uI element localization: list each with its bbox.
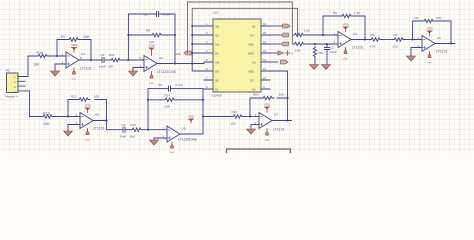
node U2 output feedback join <box>450 43 452 45</box>
svg-text:GND: GND <box>175 52 181 56</box>
svg-text:VSS: VSS <box>85 140 90 142</box>
resistor R22 1.1K (rail B) <box>293 42 305 52</box>
op-amp U9 LT1115CN8 <box>163 126 197 142</box>
VDD power port stage2 <box>149 44 156 56</box>
node bus pin3 <box>191 43 193 45</box>
svg-text:U10: U10 <box>213 11 219 15</box>
svg-text:VDD: VDD <box>188 115 195 119</box>
resistor R13 10K (stage7 input) <box>231 110 245 126</box>
VDD power port stage6 <box>188 115 195 124</box>
svg-text:VSS: VSS <box>170 152 175 153</box>
ground at U9 <box>150 140 159 145</box>
node rail tap left <box>128 34 130 36</box>
power port below U3 <box>343 48 348 61</box>
svg-text:R5: R5 <box>333 11 337 15</box>
node hang R tap <box>314 43 316 45</box>
resistor R16 75K (to ground) <box>313 47 323 65</box>
wire feedback loop stage1 <box>57 40 91 61</box>
node stage5 feedback tap <box>67 116 69 118</box>
svg-text:VSS: VSS <box>265 140 270 142</box>
ground at U4 <box>51 71 60 76</box>
wire R13 to U7 <box>244 116 259 118</box>
wire U5 output to DG408 pin S2 <box>157 63 204 64</box>
VDD power port stage7 <box>264 103 271 113</box>
wire C4 to right riser <box>159 14 176 64</box>
node stage6 rail left <box>147 99 149 101</box>
wire U4 output <box>79 59 101 61</box>
svg-text:1.1K: 1.1K <box>304 29 310 33</box>
capacitor C4 4.7uF (stage2 feedback) <box>144 11 171 16</box>
svg-text:D2: D2 <box>250 79 254 83</box>
svg-text:15: 15 <box>263 31 267 35</box>
svg-text:GND: GND <box>248 52 254 56</box>
svg-text:VDD: VDD <box>427 27 434 31</box>
svg-text:10K: 10K <box>279 93 284 97</box>
VDD power port stage3 <box>343 23 350 32</box>
multiplexer U10 DG408 body <box>212 11 261 98</box>
DG408 pin14 wire <box>270 43 280 45</box>
node stage7 feedback rail joins riser <box>287 97 289 99</box>
svg-text:S0: S0 <box>252 88 256 92</box>
wire R10 to U4 inverting input <box>49 55 66 57</box>
svg-text:C6: C6 <box>158 83 162 87</box>
svg-text:10K: 10K <box>231 122 236 126</box>
svg-text:LT1101: LT1101 <box>352 46 364 50</box>
DG408 pin16 wire to port <box>270 25 283 27</box>
op-amp U4 LT1101 <box>62 52 92 71</box>
wire R19 to U6 <box>54 116 80 118</box>
svg-text:LT1101: LT1101 <box>93 127 105 131</box>
wire C6 to right riser <box>171 89 204 134</box>
port output arrow pin16 <box>283 24 291 28</box>
stage2 feedback left riser <box>128 14 156 60</box>
wire stage6 to R13 <box>203 116 232 118</box>
node bus joins stage2 output row <box>191 63 193 65</box>
resistor R4 10K <box>393 33 406 49</box>
svg-text:U2: U2 <box>437 36 441 40</box>
node rail tap right <box>174 34 176 36</box>
svg-text:VDD: VDD <box>71 43 78 47</box>
ground at U7 <box>247 129 256 134</box>
stage7 feedback loop <box>250 98 288 117</box>
power port below U5 <box>149 72 154 86</box>
svg-text:VDD: VDD <box>248 70 254 74</box>
svg-text:S4: S4 <box>250 34 254 38</box>
ground at U6 <box>64 131 73 136</box>
small port on pin15 <box>281 33 289 37</box>
DG408 right pin stubs <box>261 26 270 89</box>
resistor R5 1.3K (stage3 feedback) <box>333 11 360 18</box>
node U6 output <box>106 120 108 122</box>
svg-text:10nF: 10nF <box>120 135 127 139</box>
connector P1 Header 4 <box>6 69 26 99</box>
svg-text:U9: U9 <box>182 127 186 131</box>
svg-text:4.7uF: 4.7uF <box>175 83 183 87</box>
wire U7 + input to ground <box>251 125 259 130</box>
VDD power port stage1 <box>71 43 78 52</box>
svg-text:R24: R24 <box>165 94 171 98</box>
wire C1 to R17 <box>125 129 131 131</box>
svg-text:NC: NC <box>215 79 219 83</box>
svg-text:10: 10 <box>263 76 267 80</box>
svg-text:S1: S1 <box>252 25 256 29</box>
wire rail A to U3 - input <box>305 34 338 36</box>
svg-text:-5: -5 <box>291 52 294 56</box>
svg-text:C2: C2 <box>330 46 334 50</box>
svg-text:10K: 10K <box>393 45 398 49</box>
svg-text:IN2: IN2 <box>215 43 220 47</box>
wire into U5 - input <box>143 59 144 61</box>
node U7 output join riser <box>287 120 289 122</box>
wire pin13 to power port <box>270 52 278 54</box>
wire U7 output <box>272 120 292 122</box>
svg-text:R3: R3 <box>371 33 375 37</box>
node stage6 output to R13 row <box>202 116 204 118</box>
routing loop outer over IC <box>188 2 293 53</box>
capacitor C1 10nF <box>120 123 127 139</box>
svg-text:R20: R20 <box>253 93 259 97</box>
wire R17 to U9 input <box>143 129 167 131</box>
resistor R8 10K (stage2 feedback) <box>128 29 175 45</box>
svg-text:LT1101: LT1101 <box>80 67 92 71</box>
routing loop inner over IC <box>192 8 297 35</box>
wire U2 + input to ground <box>411 48 422 57</box>
node U5 output feedback join <box>174 63 176 65</box>
stage6 feedback left riser <box>148 89 169 130</box>
wire U9 output <box>180 133 203 135</box>
svg-text:4.7K: 4.7K <box>370 45 376 49</box>
svg-text:U3: U3 <box>353 32 357 36</box>
svg-text:13: 13 <box>263 49 267 53</box>
ground at U2 <box>407 56 416 61</box>
node stage6 rail right <box>202 99 204 101</box>
resistor R19 10K (stage5 input) <box>42 112 54 127</box>
resistor R12 10K (stage5 feedback) <box>71 95 99 102</box>
svg-text:LT1115CN8: LT1115CN8 <box>178 138 197 142</box>
svg-text:IN1: IN1 <box>215 25 220 29</box>
node rail A feedback tap <box>322 34 324 36</box>
svg-text:10K: 10K <box>130 135 135 139</box>
ground at U5 <box>129 71 138 76</box>
power port marks on pin13 <box>278 51 284 55</box>
resistor R24 10K (stage6 feedback) <box>148 94 203 109</box>
op-amp U7 LT1101 <box>255 113 285 132</box>
svg-text:16: 16 <box>263 22 267 26</box>
wire header pin4 down to bottom row <box>25 91 42 117</box>
op-amp U6 LT1101 <box>76 113 105 131</box>
node stage7 feedback tap <box>249 116 251 118</box>
svg-text:10nF: 10nF <box>330 50 337 54</box>
node stage4 feedback tap <box>412 39 414 41</box>
op-amp U3 LT1101 <box>334 32 364 50</box>
node stage2 input tap <box>128 59 130 61</box>
wire rail B to U3 + input <box>305 43 338 45</box>
node U3 output feedback join <box>364 39 366 41</box>
svg-text:VDD: VDD <box>85 104 92 108</box>
wire U6 output dogleg <box>93 121 123 130</box>
wire U5 + input to ground <box>133 68 144 72</box>
ground below C2 <box>322 65 331 70</box>
svg-text:D1: D1 <box>215 88 219 92</box>
svg-text:LT1115CN8: LT1115CN8 <box>157 70 176 74</box>
svg-text:10K: 10K <box>436 16 441 20</box>
power port below U2 <box>427 52 432 65</box>
wire pin11 down to stage7 output <box>270 71 288 121</box>
svg-text:VDD: VDD <box>343 23 350 27</box>
small port on pin14 <box>281 42 289 46</box>
wire U2 output <box>435 43 455 45</box>
node bus pin2 <box>191 34 193 36</box>
wire C3 to R11 <box>104 59 110 61</box>
svg-text:R12: R12 <box>71 95 77 99</box>
svg-text:1.3K: 1.3K <box>354 11 360 15</box>
power port below U4 <box>72 68 77 81</box>
power port below U6 <box>85 129 90 142</box>
port GND arrow left of bus <box>175 51 192 56</box>
svg-text:14: 14 <box>263 40 267 44</box>
svg-text:IN3: IN3 <box>215 61 220 65</box>
svg-text:12: 12 <box>263 58 267 62</box>
DG408 pin15 wire <box>270 34 280 36</box>
svg-text:R10: R10 <box>37 51 44 55</box>
capacitor C2 10nF (to ground) <box>324 44 337 65</box>
DG408 pin numbers <box>206 22 267 89</box>
op-amp U2 LT1101 <box>418 36 448 54</box>
svg-text:VSS: VSS <box>427 63 432 65</box>
resistor R20 10K (stage7 feedback) <box>253 93 284 100</box>
node hang C tap <box>326 43 328 45</box>
stage5 feedback loop wires <box>68 100 107 121</box>
wire U6 + input to ground <box>68 125 80 132</box>
svg-text:D4: D4 <box>215 52 219 56</box>
resistor R7 10K (stage1 feedback) <box>61 35 90 41</box>
svg-text:LT1101: LT1101 <box>273 128 285 132</box>
svg-text:C1: C1 <box>122 123 126 127</box>
svg-text:U5: U5 <box>159 56 163 60</box>
DG408 left pin stubs <box>204 26 213 89</box>
svg-text:VDD: VDD <box>149 44 156 48</box>
svg-text:U7: U7 <box>274 113 278 117</box>
svg-text:75K: 75K <box>318 51 323 55</box>
wire U9 + input to ground <box>154 138 167 140</box>
resistor R21 1.1K (rail A) <box>293 29 309 37</box>
svg-text:R8: R8 <box>146 29 150 33</box>
left bus wire to pins 1-4 <box>192 26 204 71</box>
DG408 left pin names <box>215 25 220 92</box>
svg-text:DG408: DG408 <box>212 94 222 98</box>
svg-text:R19: R19 <box>43 112 50 116</box>
stage4 feedback loop <box>413 21 451 44</box>
svg-text:LT1101: LT1101 <box>436 50 448 54</box>
svg-text:10nF: 10nF <box>99 65 106 69</box>
svg-text:R2: R2 <box>415 16 419 20</box>
svg-text:VDD: VDD <box>264 103 271 107</box>
svg-text:10K: 10K <box>165 105 170 109</box>
title block rectangle bottom <box>227 149 291 153</box>
resistor R3 4.7K <box>370 33 383 49</box>
svg-text:10K: 10K <box>83 35 90 39</box>
svg-text:NC: NC <box>252 61 256 65</box>
power port below U9 <box>170 142 175 154</box>
port output arrow pin12 <box>281 60 289 64</box>
svg-text:VDD: VDD <box>248 43 254 47</box>
wire U3 output <box>351 39 370 41</box>
DG408 pin12 wire to port <box>270 61 278 63</box>
capacitor C6 4.7uF (stage6 feedback) <box>158 83 183 91</box>
svg-text:C3: C3 <box>101 53 105 57</box>
wire header pin1 to R10 <box>25 56 37 77</box>
op-amp U5 LT1115CN8 <box>140 56 176 75</box>
resistor R2 10K (stage4 feedback) <box>415 16 442 23</box>
svg-text:U6: U6 <box>95 113 99 117</box>
svg-text:R11: R11 <box>109 53 115 57</box>
svg-text:10K: 10K <box>94 95 99 99</box>
capacitor C3 10nF <box>99 53 106 69</box>
stage3 feedback loop <box>323 16 365 40</box>
node feedback tap stage1 <box>56 55 58 57</box>
VDD power port stage4 <box>427 27 434 36</box>
svg-text:R7: R7 <box>61 35 66 39</box>
svg-text:Header 4: Header 4 <box>6 95 19 99</box>
node stage6 input tap <box>147 129 149 131</box>
VDD power port stage5 <box>85 104 92 113</box>
wire R3 to R4 <box>382 39 393 41</box>
svg-text:R17: R17 <box>131 123 137 127</box>
resistor R11 10K <box>108 53 122 69</box>
svg-text:11: 11 <box>263 67 266 71</box>
wire R4 to U2 - input <box>405 39 422 41</box>
DG408 right pin names <box>248 25 256 92</box>
svg-text:VSS: VSS <box>149 83 154 85</box>
ground below R16 <box>310 65 319 70</box>
svg-text:10K: 10K <box>43 122 50 126</box>
svg-text:U4: U4 <box>81 52 85 56</box>
wire U4 + input to ground <box>55 64 66 71</box>
svg-text:10K: 10K <box>108 65 113 69</box>
svg-text:1.1K: 1.1K <box>295 49 301 53</box>
svg-text:NC: NC <box>215 34 219 38</box>
wire R11 to U5 input <box>122 59 144 61</box>
svg-text:10K: 10K <box>33 63 40 67</box>
node U4 output <box>90 59 92 61</box>
resistor R10 10K <box>33 51 49 67</box>
svg-text:P1: P1 <box>6 69 10 73</box>
svg-text:R4: R4 <box>394 33 398 37</box>
node bus pin4 <box>191 52 193 54</box>
svg-text:VSS: VSS <box>343 59 348 61</box>
svg-text:4.7uF: 4.7uF <box>163 13 171 17</box>
power port below U7 <box>265 129 270 143</box>
svg-text:D8: D8 <box>215 70 219 74</box>
resistor R17 10K <box>130 123 144 139</box>
svg-text:C4: C4 <box>144 13 148 17</box>
svg-text:VSS: VSS <box>72 79 77 81</box>
svg-text:R13: R13 <box>232 110 238 114</box>
